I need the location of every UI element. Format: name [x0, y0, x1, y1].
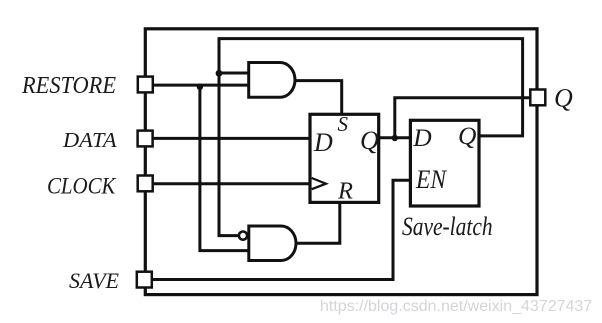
svg-text:S: S [338, 112, 349, 136]
svg-text:D: D [412, 123, 432, 152]
svg-text:DATA: DATA [62, 128, 117, 152]
svg-text:EN: EN [415, 165, 447, 194]
svg-text:SAVE: SAVE [69, 268, 120, 293]
svg-text:R: R [337, 177, 353, 204]
svg-text:Q: Q [458, 121, 476, 150]
svg-text:RESTORE: RESTORE [21, 72, 116, 99]
svg-text:Save-latch: Save-latch [402, 211, 493, 241]
svg-text:D: D [313, 128, 333, 157]
svg-text:Q: Q [554, 84, 573, 113]
svg-text:CLOCK: CLOCK [47, 173, 117, 198]
svg-text:https://blog.csdn.net/weixin_4: https://blog.csdn.net/weixin_43727437 [320, 298, 592, 315]
svg-text:Q: Q [360, 126, 379, 155]
